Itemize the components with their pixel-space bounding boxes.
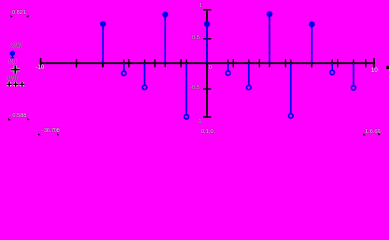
y-axis top cap <box>203 9 211 11</box>
value label bottom-right 1.6.66 <box>365 130 381 136</box>
stem k=3 <box>269 17 271 63</box>
x-axis <box>40 62 375 64</box>
x-axis right end cap <box>373 58 375 68</box>
stem k=4 <box>290 63 292 114</box>
y-axis label -1 <box>197 120 202 126</box>
stem k=6 <box>331 63 333 70</box>
stem k=-4 <box>123 63 125 71</box>
y-axis label 1 <box>199 4 202 10</box>
stems <box>101 12 356 119</box>
stem k=2 <box>248 63 250 85</box>
stem k=0 <box>206 27 208 63</box>
legend three pluses halo <box>7 82 25 87</box>
legend stem symbol <box>10 51 14 58</box>
x-axis left end cap <box>40 58 42 68</box>
stem k=5 <box>311 27 313 63</box>
y-axis label -0.5 <box>190 86 200 92</box>
bottom-center label 0,1,0 <box>201 130 215 136</box>
value label top-left 0.821 <box>12 11 26 17</box>
legend big plus halo <box>11 66 20 74</box>
y-axis <box>206 9 208 118</box>
legend text x(k) <box>11 43 22 50</box>
legend text f(t) <box>9 59 17 66</box>
x-axis label -10 <box>36 66 45 72</box>
value label bottom -36.708 <box>41 129 60 135</box>
legend three pluses <box>7 82 25 87</box>
x-axis label 10 <box>371 69 378 75</box>
stem k=-3 <box>144 63 146 85</box>
bracket commas around corner numbers <box>8 15 380 136</box>
right edge dash <box>386 66 389 69</box>
y-axis label 0.5 <box>192 36 200 42</box>
x ticks <box>77 59 366 67</box>
stem k=7 <box>353 63 355 85</box>
y tick 0.5 <box>203 38 211 40</box>
stem k=-5 <box>102 26 104 63</box>
stem k=-2 <box>164 17 166 63</box>
value label bottom-left -0.588 <box>9 114 26 120</box>
stem k=-1 <box>185 63 187 114</box>
y tick -0.5 <box>203 88 211 90</box>
legend big plus <box>11 66 20 74</box>
y-axis bottom cap <box>203 116 211 118</box>
stem k=1 <box>227 63 229 71</box>
sample base marks on axis <box>103 59 354 67</box>
legend text p(t) <box>8 76 18 83</box>
origin label 0 <box>209 66 212 72</box>
